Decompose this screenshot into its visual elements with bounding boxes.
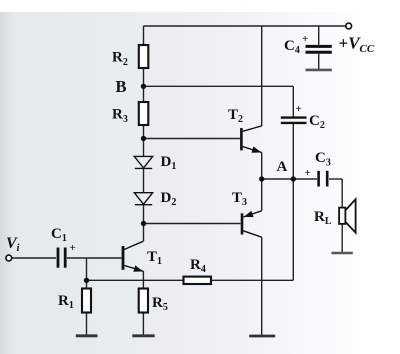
- svg-text:+: +: [70, 242, 76, 254]
- transistor T2: [241, 126, 261, 153]
- node feedback junction: [84, 278, 89, 283]
- svg-text:C2: C2: [309, 113, 325, 131]
- wire C4 top stem: [318, 26, 320, 45]
- capacitor C1: [58, 248, 65, 268]
- ground at R5: [132, 334, 154, 337]
- ground at T3 collector: [249, 335, 275, 338]
- wire R1 stem: [86, 280, 88, 288]
- resistor R5: [139, 289, 148, 313]
- capacitor C2: [281, 118, 307, 123]
- svg-text:+VCC: +VCC: [339, 34, 375, 56]
- node below D2 junction: [141, 221, 146, 226]
- wire R5 to ground: [142, 313, 144, 336]
- wire input terminal to C1: [12, 257, 57, 259]
- svg-text:RL: RL: [314, 209, 332, 227]
- svg-text:C3: C3: [315, 150, 331, 169]
- svg-text:T3: T3: [232, 190, 247, 208]
- wire R2 bottom to node B: [143, 68, 145, 102]
- wire feedback node to R4: [87, 279, 184, 281]
- wire T2 collector to VCC rail: [261, 26, 263, 126]
- wire node B to C2 top: [144, 85, 294, 87]
- svg-text:R2: R2: [112, 50, 128, 69]
- node B junction: [141, 84, 146, 89]
- diode D1: [134, 156, 152, 168]
- svg-text:R3: R3: [112, 107, 128, 126]
- wire T3 emitter to node A: [261, 179, 263, 211]
- wire D1 to D2: [143, 169, 145, 193]
- wire R3 bottom to node: [143, 125, 145, 157]
- wire C1 to T1 base: [67, 257, 122, 259]
- wire R1 to ground: [86, 313, 88, 336]
- svg-text:C1: C1: [51, 226, 67, 244]
- svg-text:D1: D1: [161, 154, 177, 172]
- transistor T1: [123, 241, 143, 272]
- resistor R4: [184, 277, 212, 284]
- resistor R1: [82, 289, 91, 313]
- wire C4 bottom to ground: [318, 54, 320, 70]
- capacitor C3: [319, 171, 328, 187]
- svg-text:T2: T2: [228, 107, 243, 125]
- VCC terminal: [346, 23, 352, 29]
- wire T1 emitter to R5: [142, 271, 144, 289]
- wire D2 to node: [143, 205, 145, 224]
- svg-text:R4: R4: [190, 257, 206, 275]
- ground at RL: [332, 252, 353, 255]
- wire C2 top stem: [292, 86, 294, 116]
- wire R2 top stem: [143, 26, 145, 45]
- speaker RL: [339, 199, 356, 232]
- wire node to T2 base: [144, 138, 241, 140]
- wire node A to C3: [262, 178, 317, 180]
- transistor T3: [242, 211, 262, 237]
- svg-text:B: B: [116, 77, 127, 96]
- svg-text:R5: R5: [152, 295, 168, 313]
- wire T3 collector to ground: [261, 237, 263, 336]
- wire speaker to ground: [341, 224, 343, 253]
- node A emitter junction: [259, 176, 264, 181]
- svg-text:+: +: [302, 33, 308, 45]
- ground at R1: [76, 334, 98, 337]
- wire riser R4 to node A: [292, 179, 294, 280]
- svg-text:+: +: [305, 167, 311, 179]
- svg-text:D2: D2: [161, 190, 177, 208]
- resistor R2: [139, 45, 149, 68]
- resistor R3: [139, 102, 149, 125]
- node below R3 junction: [141, 136, 146, 141]
- capacitor C4: [306, 46, 332, 52]
- svg-text:Vi: Vi: [6, 235, 20, 254]
- svg-text:T1: T1: [147, 249, 162, 267]
- wire R4 to riser: [211, 279, 293, 281]
- svg-text:A: A: [277, 159, 288, 175]
- wire C2 bottom to node A: [292, 124, 294, 179]
- wire C3 to speaker: [329, 178, 342, 180]
- wire node to T3 base: [144, 223, 241, 225]
- diode D2: [134, 193, 152, 205]
- svg-text:+: +: [296, 103, 302, 115]
- svg-text:C4: C4: [284, 38, 300, 56]
- ground at C4: [306, 69, 332, 72]
- svg-text:R1: R1: [58, 293, 74, 311]
- wire speaker top stem: [341, 179, 343, 208]
- input terminal: [6, 255, 12, 261]
- wire VCC top rail: [144, 25, 346, 27]
- wire T2 emitter to node A: [261, 152, 263, 179]
- wire T1 collector vertical: [143, 224, 145, 242]
- wire base tap down: [86, 258, 88, 280]
- node A riser junction: [291, 176, 296, 181]
